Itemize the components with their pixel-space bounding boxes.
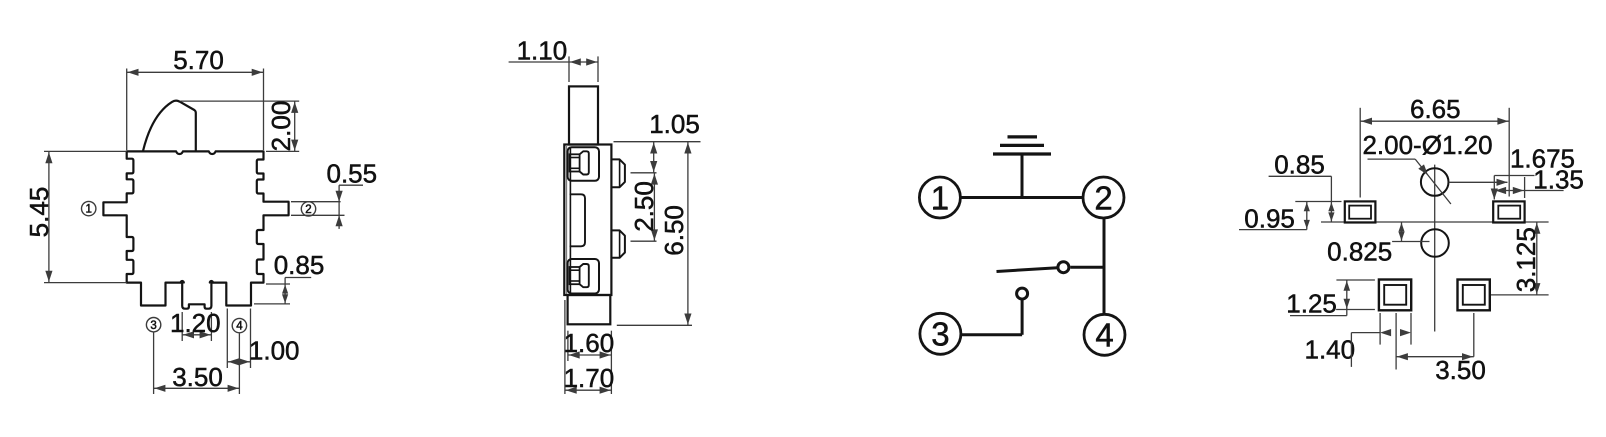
svg-text:3.50: 3.50 <box>172 362 223 392</box>
svg-text:2.50: 2.50 <box>629 181 659 232</box>
svg-text:5.70: 5.70 <box>173 45 224 75</box>
svg-text:0.55: 0.55 <box>326 158 377 188</box>
svg-text:6.50: 6.50 <box>659 205 689 256</box>
svg-text:1.25: 1.25 <box>1286 289 1337 319</box>
svg-text:3: 3 <box>150 320 156 332</box>
svg-text:6.65: 6.65 <box>1410 94 1461 124</box>
svg-text:2: 2 <box>305 204 311 216</box>
svg-text:0.825: 0.825 <box>1327 236 1392 266</box>
svg-text:5.45: 5.45 <box>24 187 54 238</box>
svg-text:1.60: 1.60 <box>564 328 615 358</box>
svg-text:1.05: 1.05 <box>649 109 700 139</box>
svg-text:1.00: 1.00 <box>249 336 300 366</box>
svg-text:4: 4 <box>1095 317 1113 354</box>
svg-text:1.40: 1.40 <box>1304 334 1355 364</box>
svg-text:1: 1 <box>85 204 91 216</box>
svg-text:0.85: 0.85 <box>1274 150 1325 180</box>
svg-text:1.10: 1.10 <box>517 35 568 65</box>
svg-text:1: 1 <box>931 179 949 216</box>
svg-text:4: 4 <box>236 321 243 333</box>
svg-text:0.85: 0.85 <box>274 250 325 280</box>
svg-text:1.70: 1.70 <box>564 363 615 393</box>
svg-text:2: 2 <box>1094 179 1112 216</box>
svg-text:3: 3 <box>931 316 949 353</box>
svg-text:1.20: 1.20 <box>170 308 221 338</box>
svg-text:3.50: 3.50 <box>1435 355 1486 385</box>
svg-text:2.00-Ø1.20: 2.00-Ø1.20 <box>1362 130 1492 160</box>
svg-text:0.95: 0.95 <box>1244 203 1295 233</box>
svg-text:2.00: 2.00 <box>266 101 296 152</box>
svg-text:3.125: 3.125 <box>1511 227 1541 292</box>
